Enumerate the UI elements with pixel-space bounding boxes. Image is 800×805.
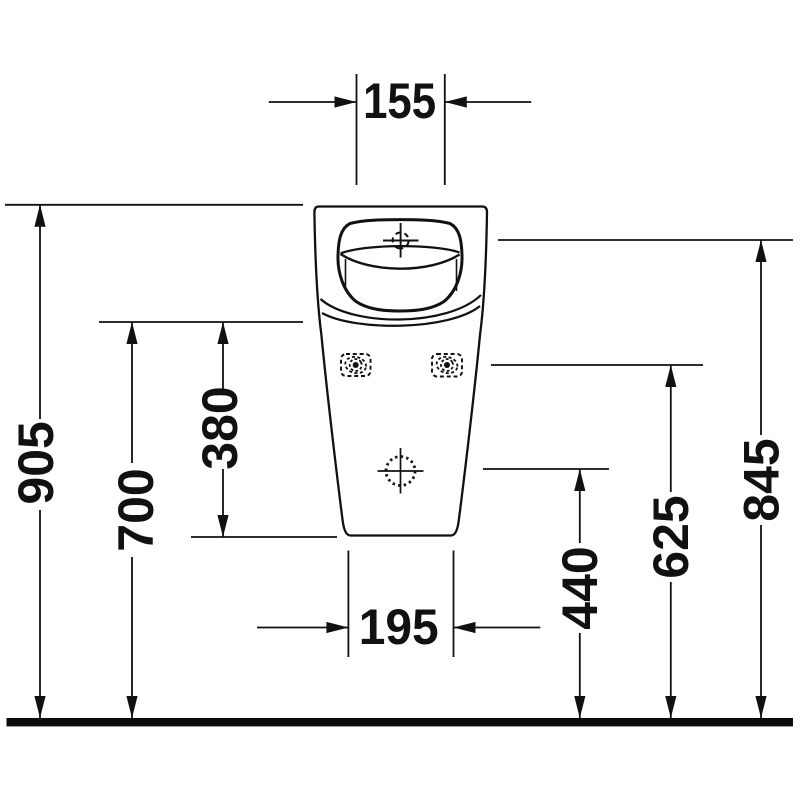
dimension 440 line lower <box>579 633 581 718</box>
dimension 195 right extension line <box>453 551 455 658</box>
dimension 625 extension line <box>491 364 703 366</box>
dimension 380 line upper <box>222 322 224 389</box>
dimension 845 line upper <box>760 240 762 435</box>
svg-text:905: 905 <box>8 421 64 504</box>
dimension 905 line upper <box>39 205 41 419</box>
dimension 155 left extension line <box>356 74 358 185</box>
right fixing hole dashed box <box>432 354 462 377</box>
urinal bowl outline <box>338 220 462 311</box>
svg-text:195: 195 <box>359 599 439 655</box>
dimension 700 extension line <box>99 321 303 323</box>
urinal rim front curve outer <box>321 295 482 320</box>
outlet dotted circle <box>386 457 415 486</box>
left fixing hole center blob <box>353 362 359 368</box>
dimension 845 up arrow <box>755 240 766 262</box>
dimension 440 line upper <box>579 469 581 543</box>
dimension 625 line upper <box>670 365 672 492</box>
dimension 380 line lower <box>222 469 224 537</box>
svg-text:700: 700 <box>108 468 164 551</box>
inlet dashed circle <box>391 231 410 250</box>
dimension 440 up arrow <box>574 469 585 491</box>
outlet crosshair horizontal <box>378 470 424 472</box>
bowl waterline back curve <box>341 246 460 253</box>
dimension 845 extension line <box>498 239 793 241</box>
dimension 195 left line <box>257 627 348 629</box>
dimension 700 down arrow <box>126 696 137 718</box>
dimension 625 up arrow <box>665 365 676 387</box>
dimension 155 right line <box>445 101 531 103</box>
svg-text:380: 380 <box>192 386 248 469</box>
right fixing hole dashed ellipse <box>435 355 459 376</box>
dimension 155 left-pointing arrow <box>445 96 467 107</box>
dimension 380 up arrow <box>217 322 228 344</box>
dimension 155 right-pointing arrow <box>335 96 357 107</box>
svg-text:845: 845 <box>733 438 789 521</box>
svg-text:440: 440 <box>552 546 608 629</box>
dimension 380 bottom extension line <box>191 536 337 538</box>
dimension 905 up arrow <box>34 205 45 227</box>
dimension 905 down arrow <box>34 696 45 718</box>
inlet crosshair horizontal <box>383 240 419 242</box>
left fixing hole dashed box <box>341 354 371 376</box>
left fixing hole dashed circle <box>348 357 364 373</box>
dimension 625 down arrow <box>665 696 676 718</box>
inlet crosshair vertical <box>400 223 402 258</box>
dimension 700 up arrow <box>126 322 137 344</box>
urinal rim front curve inner <box>322 306 480 326</box>
dimension 380 down arrow <box>217 515 228 537</box>
dimension 440 down arrow <box>574 696 585 718</box>
dimension 155 right extension line <box>444 74 446 185</box>
dimension 700 line lower <box>131 557 133 718</box>
dimension 195 left extension line <box>347 551 349 658</box>
dimension 845 line lower <box>760 525 762 718</box>
bowl right side tick <box>456 259 458 291</box>
outlet crosshair vertical <box>400 448 402 494</box>
urinal body outline <box>314 207 487 536</box>
dimension 905 line lower <box>39 510 41 718</box>
dimension 845 down arrow <box>755 696 766 718</box>
dimension 700 line upper <box>131 322 133 463</box>
dimension 195 left-pointing arrow <box>454 622 476 633</box>
floor line <box>7 718 794 726</box>
bowl waterline smile curve <box>341 254 460 269</box>
right fixing hole dashed circle <box>439 357 455 373</box>
dimension 195 right line <box>454 627 541 629</box>
bowl left side tick <box>345 259 347 290</box>
dimension 905 extension line <box>5 204 303 206</box>
svg-text:155: 155 <box>363 73 436 129</box>
dimension 195 right-pointing arrow <box>326 622 348 633</box>
dimension 155 left line <box>269 101 357 103</box>
dimension 440 extension line <box>483 468 609 470</box>
right fixing hole center blob <box>444 362 450 368</box>
left fixing hole dashed ellipse <box>344 355 368 376</box>
dimension 625 line lower <box>670 582 672 718</box>
svg-text:625: 625 <box>643 495 699 578</box>
